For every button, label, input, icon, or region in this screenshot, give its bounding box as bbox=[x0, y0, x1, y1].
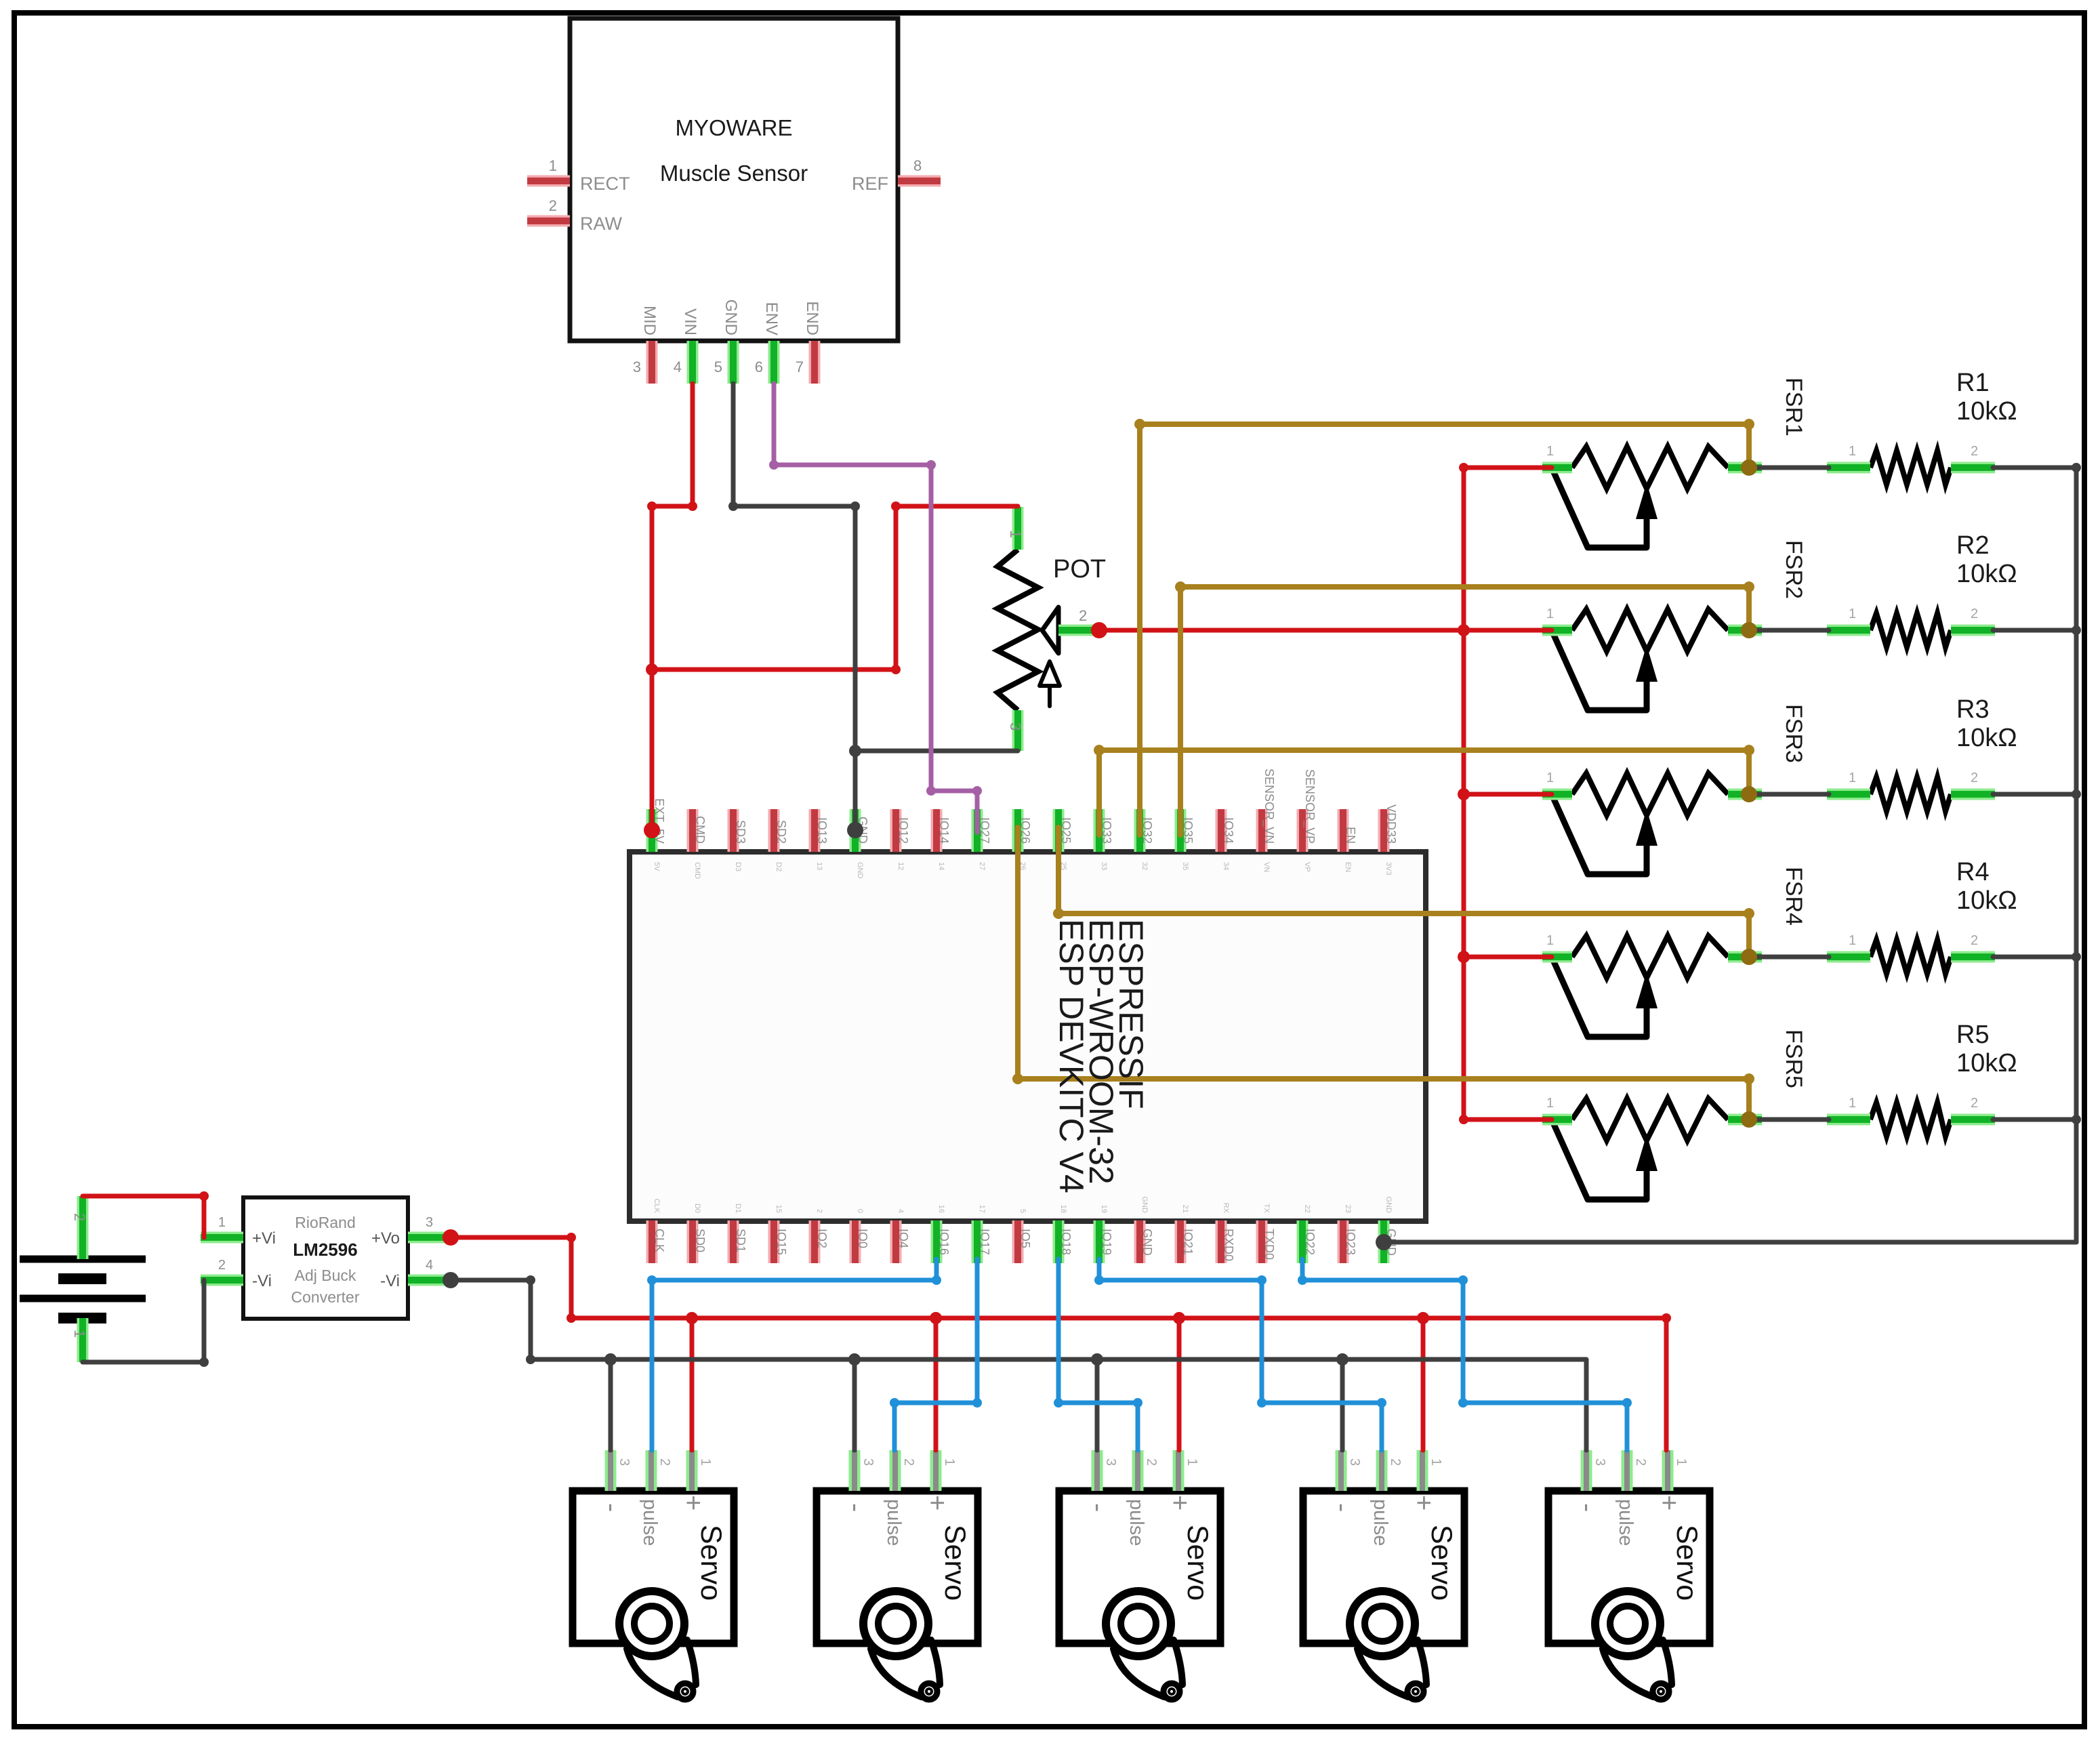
svg-text:10kΩ: 10kΩ bbox=[1956, 1049, 2017, 1077]
svg-text:10kΩ: 10kΩ bbox=[1956, 724, 2017, 752]
ESP32 bottom pin GND bbox=[1134, 1220, 1146, 1263]
wire IO18 to servo3 pulse (blue) bbox=[1058, 1259, 1138, 1450]
svg-text:pulse: pulse bbox=[1126, 1499, 1147, 1546]
wire red rail to servo2 + drop bbox=[934, 1318, 939, 1450]
wire VIN to EXT_5V (red) bbox=[652, 384, 693, 830]
svg-text:D1: D1 bbox=[734, 1204, 742, 1213]
buck pin 2 -Vi bbox=[201, 1275, 243, 1286]
muscle sensor pin 6 ENV bbox=[768, 341, 780, 384]
ESP32 bottom pin IO5 bbox=[1012, 1220, 1024, 1263]
servo M5 body bbox=[1548, 1491, 1710, 1643]
svg-text:3: 3 bbox=[426, 1215, 433, 1230]
svg-text:2: 2 bbox=[1971, 607, 1978, 621]
svg-text:SD2: SD2 bbox=[775, 820, 788, 844]
servo M2 horn icon bbox=[863, 1591, 928, 1656]
potentiometer POT trimmer arrow bbox=[1048, 686, 1052, 706]
svg-text:IO13: IO13 bbox=[815, 817, 829, 844]
svg-text:27: 27 bbox=[978, 862, 986, 870]
svg-text:2: 2 bbox=[1144, 1458, 1159, 1466]
wire POT pin2 to FSR rail (red) bbox=[1099, 628, 1464, 633]
svg-text:D0: D0 bbox=[693, 1204, 701, 1213]
svg-text:1: 1 bbox=[1546, 607, 1554, 621]
svg-text:1: 1 bbox=[1849, 1096, 1856, 1111]
ESP32 top pin IO32 bbox=[1134, 809, 1146, 852]
ESP32 top pin IO14 bbox=[931, 809, 943, 852]
ESP32 top pin EXT_5V bbox=[646, 809, 658, 852]
svg-text:Servo: Servo bbox=[939, 1525, 971, 1601]
svg-text:CMD: CMD bbox=[693, 816, 707, 844]
svg-text:FSR5: FSR5 bbox=[1781, 1029, 1807, 1088]
svg-text:IO12: IO12 bbox=[897, 817, 910, 844]
wire 5V branch to POT pin1 (red) bbox=[652, 506, 1018, 670]
POT pin 1 bbox=[1012, 507, 1024, 550]
svg-text:VDD33: VDD33 bbox=[1384, 804, 1398, 844]
svg-text:1: 1 bbox=[1849, 444, 1856, 459]
svg-text:SD0: SD0 bbox=[693, 1229, 707, 1252]
wire red rail to servo3 + drop bbox=[1177, 1318, 1182, 1450]
servo M4 body bbox=[1303, 1491, 1464, 1643]
wire R1 to GND rail bbox=[1993, 466, 2076, 470]
svg-text:2: 2 bbox=[549, 197, 557, 214]
svg-text:+: + bbox=[678, 1495, 708, 1511]
svg-text:2: 2 bbox=[901, 1458, 916, 1466]
wire rail to FSR3 pin1 (red) bbox=[1464, 792, 1552, 797]
svg-text:3: 3 bbox=[633, 358, 641, 375]
svg-text:1: 1 bbox=[1546, 771, 1554, 785]
svg-text:33: 33 bbox=[1100, 862, 1108, 870]
svg-text:3: 3 bbox=[617, 1458, 632, 1466]
muscle sensor U1 body bbox=[570, 18, 898, 341]
muscle sensor pin 1 RECT bbox=[527, 176, 570, 187]
POT pin 2 bbox=[1058, 625, 1095, 636]
wire FSR4 to R4 bbox=[1754, 955, 1829, 960]
svg-text:1: 1 bbox=[942, 1458, 957, 1466]
wire +Vo servo power rail (red) bbox=[451, 1237, 1666, 1450]
wire black rail to servo4 - drop bbox=[1340, 1359, 1345, 1450]
svg-text:VIN: VIN bbox=[681, 308, 699, 335]
ESP32 top pin IO25 bbox=[1053, 809, 1065, 852]
svg-text:MYOWARE: MYOWARE bbox=[676, 115, 793, 140]
wire FSR5 to R5 bbox=[1754, 1117, 1829, 1122]
wire red rail to servo4 + drop bbox=[1421, 1318, 1426, 1450]
FSR4 force sensor bbox=[1572, 936, 1728, 978]
svg-text:1: 1 bbox=[71, 1330, 88, 1338]
svg-text:5: 5 bbox=[714, 358, 722, 375]
svg-text:2: 2 bbox=[1388, 1458, 1403, 1466]
wire muscle GND to ESP GND (black) bbox=[733, 384, 855, 830]
svg-text:VN: VN bbox=[1262, 862, 1271, 872]
svg-text:3: 3 bbox=[1347, 1458, 1362, 1466]
svg-text:18: 18 bbox=[1059, 1205, 1067, 1213]
muscle sensor pin 8 REF bbox=[898, 176, 941, 187]
ESP32 bottom pin IO19 bbox=[1094, 1220, 1105, 1263]
ESP32 bottom pin TXD0 bbox=[1256, 1220, 1268, 1263]
ESP32 bottom pin SD0 bbox=[687, 1220, 699, 1263]
svg-text:IO17: IO17 bbox=[978, 1229, 991, 1255]
svg-text:IO15: IO15 bbox=[775, 1229, 788, 1255]
svg-text:10kΩ: 10kΩ bbox=[1956, 397, 2017, 426]
wire black rail to servo2 - drop bbox=[852, 1359, 857, 1450]
servo M1 horn icon bbox=[619, 1591, 684, 1656]
svg-text:32: 32 bbox=[1140, 862, 1149, 870]
wire battery- to -Vi (black) bbox=[83, 1280, 204, 1362]
wire R3 to GND rail bbox=[1993, 792, 2076, 797]
buck pin 4 -Vi out bbox=[408, 1275, 451, 1286]
svg-text:3: 3 bbox=[1007, 722, 1024, 731]
ESP32 bottom pin IO0 bbox=[850, 1220, 861, 1263]
FSR3 force sensor bbox=[1572, 773, 1728, 815]
svg-text:Servo: Servo bbox=[1425, 1525, 1458, 1601]
ESP32 bottom pin IO23 bbox=[1338, 1220, 1349, 1263]
svg-text:Muscle Sensor: Muscle Sensor bbox=[660, 161, 808, 186]
svg-text:ESP DEVKITC V4: ESP DEVKITC V4 bbox=[1052, 919, 1090, 1193]
svg-text:3: 3 bbox=[1592, 1458, 1607, 1466]
svg-text:1: 1 bbox=[1674, 1458, 1689, 1466]
svg-text:6: 6 bbox=[755, 358, 763, 375]
svg-text:2: 2 bbox=[1971, 933, 1978, 948]
svg-text:+: + bbox=[922, 1495, 952, 1511]
svg-text:R1: R1 bbox=[1956, 369, 1990, 397]
wire red rail to servo1 + drop bbox=[690, 1318, 695, 1450]
wire IO17 to servo2 pulse (blue) bbox=[894, 1259, 977, 1450]
svg-text:+Vi: +Vi bbox=[252, 1229, 276, 1248]
svg-text:LM2596: LM2596 bbox=[293, 1239, 357, 1260]
svg-text:CMD: CMD bbox=[693, 862, 701, 879]
svg-text:19: 19 bbox=[1100, 1205, 1108, 1213]
svg-text:IO2: IO2 bbox=[815, 1229, 829, 1248]
svg-text:VP: VP bbox=[1303, 862, 1311, 872]
svg-text:RXD0: RXD0 bbox=[1222, 1229, 1235, 1261]
ESP32 top pin VDD33 bbox=[1378, 809, 1390, 852]
svg-text:pulse: pulse bbox=[883, 1499, 905, 1546]
resistor R3 10k bbox=[1870, 777, 1951, 811]
red FSR supply rail bbox=[1462, 468, 1466, 1120]
svg-text:SENSOR_VP: SENSOR_VP bbox=[1302, 769, 1317, 844]
svg-text:GND: GND bbox=[1140, 1229, 1154, 1256]
potentiometer POT wiper triangle bbox=[1042, 607, 1058, 653]
svg-text:CLK: CLK bbox=[653, 1229, 666, 1252]
wire R2 to GND rail bbox=[1993, 628, 2076, 633]
svg-text:IO27: IO27 bbox=[978, 817, 991, 844]
svg-text:Servo: Servo bbox=[1670, 1525, 1703, 1601]
battery pin 1 bbox=[77, 1318, 89, 1362]
svg-text:RX: RX bbox=[1222, 1203, 1230, 1214]
svg-text:RECT: RECT bbox=[580, 173, 630, 194]
svg-text:IO18: IO18 bbox=[1059, 1229, 1073, 1255]
svg-text:RAW: RAW bbox=[580, 213, 623, 234]
ESP32 top pin SD2 bbox=[768, 809, 780, 852]
svg-text:13: 13 bbox=[815, 862, 823, 870]
FSR2 force sensor bbox=[1572, 609, 1728, 651]
svg-text:IO0: IO0 bbox=[856, 1229, 869, 1248]
svg-text:8: 8 bbox=[913, 157, 922, 174]
svg-text:-: - bbox=[1084, 1503, 1113, 1512]
ESP32 top pin SENSOR_VN bbox=[1256, 809, 1268, 852]
svg-text:1: 1 bbox=[1007, 530, 1024, 538]
svg-text:+Vo: +Vo bbox=[371, 1229, 400, 1248]
svg-text:22: 22 bbox=[1303, 1205, 1311, 1213]
wire black rail to servo1 - drop bbox=[609, 1359, 613, 1450]
wire ENV to IO27 (purple) bbox=[774, 384, 977, 832]
wire FSR2 to IO35 (gold) bbox=[1180, 587, 1749, 835]
wire rail to FSR5 pin1 (red) bbox=[1464, 1117, 1552, 1122]
ESP32 top pin CMD bbox=[687, 809, 699, 852]
wire FSR1 to R1 bbox=[1754, 466, 1829, 470]
svg-text:1: 1 bbox=[1849, 771, 1856, 785]
svg-text:ENV: ENV bbox=[762, 302, 781, 335]
svg-text:FSR3: FSR3 bbox=[1781, 704, 1807, 763]
wire GND rail right vertical bbox=[2074, 468, 2079, 1242]
svg-text:2: 2 bbox=[657, 1458, 672, 1466]
svg-text:2: 2 bbox=[1971, 444, 1978, 459]
svg-text:SD1: SD1 bbox=[734, 1229, 747, 1252]
FSR1 force sensor bbox=[1572, 447, 1728, 489]
svg-text:Converter: Converter bbox=[291, 1288, 360, 1306]
svg-text:2: 2 bbox=[815, 1209, 823, 1213]
svg-text:4: 4 bbox=[674, 358, 682, 375]
resistor R5 10k bbox=[1870, 1103, 1951, 1136]
wire black rail to servo3 - drop bbox=[1095, 1359, 1100, 1450]
wire battery+ to +Vi (red) bbox=[83, 1196, 204, 1237]
svg-text:TXD0: TXD0 bbox=[1262, 1229, 1276, 1260]
wire R5 to GND rail bbox=[1993, 1117, 2076, 1122]
svg-text:10kΩ: 10kΩ bbox=[1956, 886, 2017, 915]
svg-text:7: 7 bbox=[796, 358, 804, 375]
svg-text:34: 34 bbox=[1222, 862, 1230, 870]
svg-text:2: 2 bbox=[1971, 1096, 1978, 1111]
svg-text:2: 2 bbox=[1633, 1458, 1648, 1466]
wire FSR1 to IO32 (gold) bbox=[1140, 424, 1749, 835]
svg-text:15: 15 bbox=[775, 1205, 783, 1213]
svg-text:pulse: pulse bbox=[1370, 1499, 1391, 1546]
svg-text:D2: D2 bbox=[775, 862, 783, 871]
svg-text:14: 14 bbox=[937, 862, 945, 870]
buck pin 1 +Vi bbox=[201, 1232, 243, 1244]
svg-text:1: 1 bbox=[1546, 1096, 1554, 1111]
svg-text:2: 2 bbox=[71, 1213, 88, 1221]
ESP32 top pin IO27 bbox=[972, 809, 983, 852]
svg-text:END: END bbox=[803, 301, 821, 335]
svg-text:-: - bbox=[1573, 1503, 1603, 1512]
svg-text:+: + bbox=[1654, 1495, 1684, 1511]
svg-text:3: 3 bbox=[1103, 1458, 1118, 1466]
svg-text:pulse: pulse bbox=[639, 1499, 661, 1546]
ESP32 bottom pin IO18 bbox=[1053, 1220, 1065, 1263]
ESP32 top pin IO34 bbox=[1216, 809, 1227, 852]
svg-text:IO14: IO14 bbox=[937, 817, 951, 844]
svg-text:1: 1 bbox=[1849, 933, 1856, 948]
svg-text:-: - bbox=[1327, 1503, 1357, 1512]
svg-text:5V: 5V bbox=[653, 862, 661, 871]
ESP32 bottom pin IO17 bbox=[972, 1220, 983, 1263]
resistor R1 10k bbox=[1870, 451, 1951, 485]
servo M3 horn icon bbox=[1106, 1591, 1171, 1656]
muscle sensor pin 2 RAW bbox=[527, 215, 570, 227]
svg-text:1: 1 bbox=[1546, 933, 1554, 948]
svg-text:GND: GND bbox=[1384, 1197, 1393, 1214]
muscle sensor pin 3 MID bbox=[646, 341, 658, 384]
ESP32 module U2 body bbox=[630, 852, 1426, 1221]
svg-text:0: 0 bbox=[856, 1209, 864, 1213]
svg-text:1: 1 bbox=[218, 1215, 226, 1230]
POT pin 3 bbox=[1012, 710, 1024, 751]
svg-text:Adj Buck: Adj Buck bbox=[295, 1267, 356, 1284]
ESP32 top pin EN bbox=[1338, 809, 1349, 852]
servo M3 body bbox=[1059, 1491, 1220, 1643]
svg-text:Servo: Servo bbox=[695, 1525, 727, 1601]
wire IO19 to servo4 pulse (blue) bbox=[1099, 1259, 1382, 1450]
FSR5 force sensor bbox=[1572, 1099, 1728, 1141]
svg-text:R3: R3 bbox=[1956, 695, 1990, 724]
svg-text:IO16: IO16 bbox=[937, 1229, 951, 1255]
svg-text:GND: GND bbox=[856, 862, 864, 879]
ESP32 top pin GND bbox=[850, 809, 861, 852]
ESP32 top pin SD3 bbox=[728, 809, 739, 852]
svg-text:-: - bbox=[841, 1503, 871, 1512]
wire FSR2 to R2 bbox=[1754, 628, 1829, 633]
svg-text:SD3: SD3 bbox=[734, 820, 747, 844]
svg-text:MID: MID bbox=[640, 306, 659, 335]
ESP32 bottom pin CLK bbox=[646, 1220, 658, 1263]
muscle sensor pin 5 GND bbox=[728, 341, 739, 384]
wire rail to FSR2 pin1 (red) bbox=[1464, 628, 1552, 633]
svg-text:-Vi: -Vi bbox=[380, 1272, 400, 1290]
resistor R2 10k bbox=[1870, 613, 1951, 647]
servo M1 body bbox=[573, 1491, 734, 1643]
svg-text:12: 12 bbox=[897, 862, 905, 870]
ESP32 bottom pin IO15 bbox=[768, 1220, 780, 1263]
svg-text:35: 35 bbox=[1181, 862, 1189, 870]
svg-text:R4: R4 bbox=[1956, 858, 1990, 886]
svg-text:3: 3 bbox=[861, 1458, 876, 1466]
svg-text:GND: GND bbox=[1140, 1197, 1149, 1214]
ESP32 bottom pin IO2 bbox=[809, 1220, 821, 1263]
svg-text:POT: POT bbox=[1053, 555, 1106, 583]
svg-text:1: 1 bbox=[1185, 1458, 1199, 1466]
ESP32 top pin SENSOR_VP bbox=[1297, 809, 1309, 852]
wire R4 to GND rail bbox=[1993, 955, 2076, 960]
svg-text:R5: R5 bbox=[1956, 1021, 1990, 1049]
svg-text:FSR4: FSR4 bbox=[1781, 867, 1807, 926]
wire IO16 to servo1 pulse (blue) bbox=[652, 1259, 936, 1450]
svg-text:2: 2 bbox=[1079, 607, 1087, 624]
ESP32 bottom pin IO22 bbox=[1297, 1220, 1309, 1263]
svg-text:23: 23 bbox=[1344, 1205, 1352, 1213]
svg-text:SENSOR_VN: SENSOR_VN bbox=[1262, 768, 1276, 844]
wire rail to FSR4 pin1 (red) bbox=[1464, 955, 1552, 960]
svg-text:4: 4 bbox=[426, 1258, 433, 1273]
wire rail to FSR1 pin1 (red) bbox=[1464, 466, 1552, 470]
svg-text:FSR1: FSR1 bbox=[1781, 377, 1807, 436]
wire FSR3 to R3 bbox=[1754, 792, 1829, 797]
svg-text:TX: TX bbox=[1262, 1204, 1271, 1214]
svg-text:IO22: IO22 bbox=[1303, 1229, 1317, 1255]
svg-text:1: 1 bbox=[1546, 444, 1554, 459]
muscle sensor pin 4 VIN bbox=[687, 341, 699, 384]
battery BT1 plates bbox=[20, 1256, 146, 1263]
resistor R4 10k bbox=[1870, 940, 1951, 974]
svg-text:IO21: IO21 bbox=[1181, 1229, 1195, 1255]
svg-text:3V3: 3V3 bbox=[1384, 862, 1393, 876]
ESP32 top pin IO33 bbox=[1094, 809, 1105, 852]
svg-text:IO4: IO4 bbox=[897, 1229, 910, 1248]
svg-text:-Vi: -Vi bbox=[252, 1272, 272, 1290]
svg-text:+: + bbox=[1165, 1495, 1195, 1511]
svg-text:Servo: Servo bbox=[1181, 1525, 1214, 1601]
potentiometer POT zigzag bbox=[997, 550, 1038, 710]
svg-text:2: 2 bbox=[1971, 771, 1978, 785]
svg-text:pulse: pulse bbox=[1615, 1499, 1636, 1546]
ESP32 bottom pin RXD0 bbox=[1216, 1220, 1227, 1263]
svg-text:5: 5 bbox=[1018, 1209, 1027, 1213]
svg-text:D3: D3 bbox=[734, 862, 742, 871]
svg-text:16: 16 bbox=[937, 1205, 945, 1213]
ESP32 bottom pin IO4 bbox=[890, 1220, 902, 1263]
svg-text:1: 1 bbox=[1849, 607, 1856, 621]
ESP32 top pin IO35 bbox=[1175, 809, 1187, 852]
servo M4 horn icon bbox=[1350, 1591, 1415, 1656]
svg-text:2: 2 bbox=[218, 1258, 226, 1273]
wire FSR3 to IO33 (gold) bbox=[1099, 750, 1749, 835]
servo M2 body bbox=[817, 1491, 978, 1643]
svg-text:IO5: IO5 bbox=[1018, 1229, 1032, 1248]
svg-text:CLK: CLK bbox=[653, 1199, 661, 1214]
ESP32 bottom pin SD1 bbox=[728, 1220, 739, 1263]
buck converter U3 body bbox=[243, 1197, 408, 1319]
svg-text:EN: EN bbox=[1344, 827, 1357, 844]
svg-text:IO23: IO23 bbox=[1344, 1229, 1357, 1255]
ESP32 bottom pin IO16 bbox=[931, 1220, 943, 1263]
wire ESP GND to right rail (black) bbox=[1384, 1240, 2076, 1245]
svg-text:IO19: IO19 bbox=[1100, 1229, 1113, 1255]
svg-text:1: 1 bbox=[549, 157, 557, 174]
svg-text:IO34: IO34 bbox=[1222, 817, 1235, 844]
svg-text:RioRand: RioRand bbox=[295, 1214, 356, 1231]
battery pin 2 bbox=[77, 1196, 89, 1259]
ESP32 bottom pin GND bbox=[1378, 1220, 1390, 1263]
svg-text:-: - bbox=[597, 1503, 627, 1512]
wire FSR4 to IO25 (gold) bbox=[1058, 827, 1749, 957]
svg-text:21: 21 bbox=[1181, 1205, 1189, 1213]
svg-text:1: 1 bbox=[698, 1458, 713, 1466]
ESP32 bottom pin IO21 bbox=[1175, 1220, 1187, 1263]
wire GND branch to POT pin3 (black) bbox=[855, 749, 1018, 754]
servo M5 horn icon bbox=[1595, 1591, 1660, 1656]
svg-text:10kΩ: 10kΩ bbox=[1956, 560, 2017, 588]
svg-text:GND: GND bbox=[722, 300, 740, 335]
wire FSR5 to IO26 (gold) bbox=[1018, 827, 1749, 1120]
svg-text:17: 17 bbox=[978, 1205, 986, 1213]
svg-text:EN: EN bbox=[1344, 862, 1352, 872]
svg-text:FSR2: FSR2 bbox=[1781, 540, 1807, 599]
svg-text:R2: R2 bbox=[1956, 531, 1990, 560]
wire IO22 to servo5 pulse (blue) bbox=[1302, 1259, 1627, 1450]
muscle sensor pin 7 END bbox=[809, 341, 821, 384]
svg-text:1: 1 bbox=[1428, 1458, 1443, 1466]
ESP32 top pin IO26 bbox=[1012, 809, 1024, 852]
svg-text:+: + bbox=[1409, 1495, 1439, 1511]
wire -Vi servo ground rail (black) bbox=[451, 1280, 1586, 1450]
buck pin 3 +Vo bbox=[408, 1232, 451, 1244]
svg-text:REF: REF bbox=[852, 173, 888, 194]
ESP32 top pin IO12 bbox=[890, 809, 902, 852]
svg-text:4: 4 bbox=[897, 1209, 905, 1213]
ESP32 top pin IO13 bbox=[809, 809, 821, 852]
